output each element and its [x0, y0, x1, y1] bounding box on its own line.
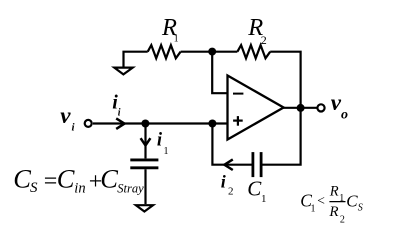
svg-text:C: C	[100, 164, 118, 194]
svg-text:C: C	[13, 164, 31, 194]
svg-text:R: R	[329, 183, 339, 199]
svg-text:S: S	[358, 203, 363, 214]
svg-text:=: =	[44, 169, 58, 195]
svg-text:1: 1	[261, 193, 267, 205]
svg-text:i: i	[118, 107, 121, 118]
svg-text:Stray: Stray	[117, 182, 144, 196]
svg-text:C: C	[57, 164, 75, 194]
svg-text:1: 1	[339, 193, 344, 204]
svg-text:2: 2	[261, 33, 267, 47]
svg-text:o: o	[341, 108, 348, 123]
svg-text:2: 2	[340, 215, 345, 226]
svg-text:in: in	[74, 180, 85, 196]
svg-text:i: i	[72, 122, 76, 134]
svg-text:v: v	[60, 103, 71, 128]
svg-text:2: 2	[228, 185, 234, 197]
svg-text:i: i	[157, 131, 163, 151]
svg-text:R: R	[328, 204, 338, 220]
svg-text:1: 1	[311, 203, 316, 214]
svg-text:<: <	[317, 193, 325, 208]
svg-text:1: 1	[164, 146, 169, 157]
svg-text:C: C	[346, 191, 358, 210]
svg-text:i: i	[221, 171, 226, 191]
svg-text:S: S	[30, 180, 38, 196]
svg-text:1: 1	[174, 34, 179, 45]
